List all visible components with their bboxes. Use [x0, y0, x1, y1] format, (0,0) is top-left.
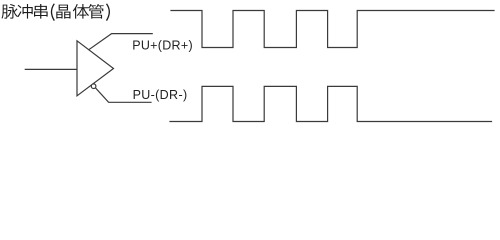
waveform PU+ (starts high, three low pulses) — [171, 11, 494, 48]
wire: input to driver — [25, 68, 77, 70]
title parentheses ( ) — [52, 4, 110, 21]
waveform PU- (starts low, three high pulses) — [170, 86, 492, 121]
svg-text:PU+(DR+): PU+(DR+) — [132, 39, 193, 53]
svg-text:PU-(DR-): PU-(DR-) — [133, 88, 188, 102]
wire: PU+ output tap from upper edge to label rail — [89, 34, 152, 50]
inversion bubble on PU- output — [91, 84, 96, 89]
driver triangle (differential pulse driver) — [77, 41, 114, 96]
title text 脉冲串(晶体管) "Pulse train (transistor)" — [2, 4, 104, 19]
wire: PU- output tap from bubble to label rail — [96, 88, 152, 102]
